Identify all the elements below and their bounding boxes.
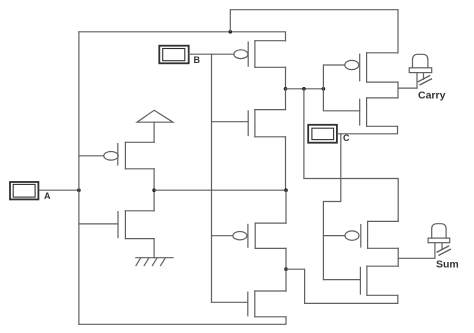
input terminal C <box>308 125 337 143</box>
wire net A vertical bus <box>78 32 80 325</box>
wire C to M9 gate <box>323 235 345 237</box>
svg-text:Carry: Carry <box>418 89 446 101</box>
wire carry node <box>397 82 399 98</box>
wire net X horizontal <box>286 88 324 90</box>
junction dot top rail <box>229 30 233 34</box>
pmos M5 pass B third <box>233 223 286 248</box>
wire carry output <box>398 87 417 89</box>
wire net A bottom rail <box>79 317 286 325</box>
nmos M8 carry <box>360 98 398 126</box>
pmos M7 carry <box>345 53 398 82</box>
input terminal B <box>159 46 188 64</box>
junction dot node nA right <box>284 188 288 192</box>
pmos M1 A-inverter <box>104 142 154 169</box>
wire M2 gate from bus <box>79 223 118 225</box>
junction dot X2 <box>302 87 306 91</box>
wire input A to bus <box>39 189 79 191</box>
junction dot X3 <box>322 87 326 91</box>
wire net X to M8 gate <box>323 89 359 111</box>
wire M4 gate from B bus <box>212 121 249 123</box>
junction dot X1 <box>284 87 288 91</box>
wire M2 drain to node nA <box>153 190 155 211</box>
led D2 sum <box>428 224 450 259</box>
wire M5 source to node nY <box>285 248 287 269</box>
wire net A top rail <box>79 32 286 41</box>
wire M4 drain to node X <box>285 89 287 110</box>
wire net X to M9 drain <box>304 89 398 222</box>
svg-text:A: A <box>44 191 51 201</box>
wire M2 source to ground <box>153 239 155 258</box>
wire M4 source to node nA <box>285 137 287 190</box>
wire node nA <box>154 189 286 191</box>
vdd power arrow <box>137 110 173 142</box>
ground <box>136 258 173 266</box>
wire M5 gate from B bus <box>212 235 233 237</box>
junction dot node nA left <box>152 188 156 192</box>
wire M3 source to node X <box>285 67 287 89</box>
wire net Y to M10 source <box>286 269 398 303</box>
svg-text:Sum: Sum <box>436 259 459 271</box>
wire input C to M8 source <box>338 126 398 134</box>
pmos M9 sum <box>345 221 398 248</box>
wire net B vertical bus <box>211 54 213 302</box>
wire input B <box>189 53 234 55</box>
led D1 carry <box>409 54 432 88</box>
input terminal A <box>10 182 38 199</box>
wire net A upper rail to M7 drain <box>230 10 398 53</box>
wire M1 source to node nA <box>153 169 155 190</box>
pmos M3 pass B top <box>234 41 286 68</box>
wire M6 gate from B bus <box>212 301 248 303</box>
wire net C to sum gate bus <box>323 134 340 280</box>
wire M5 drain to node nA <box>285 190 287 223</box>
svg-text:C: C <box>343 133 350 143</box>
wire C to M10 gate <box>323 279 360 281</box>
wire M6 drain to node nY <box>285 269 287 291</box>
wire sum node <box>397 248 399 266</box>
nmos M10 sum <box>360 266 398 295</box>
nmos M2 A-inverter <box>118 211 154 239</box>
svg-text:B: B <box>194 55 201 65</box>
junction dot node nY <box>284 267 288 271</box>
wire net X to M7 gate <box>323 65 344 89</box>
wire M1 gate from bus <box>79 155 104 157</box>
nmos M6 pass B bottom <box>248 291 286 317</box>
junction dot node A bus <box>77 188 81 192</box>
nmos M4 pass B second <box>248 110 285 137</box>
wire sum output <box>398 257 435 259</box>
